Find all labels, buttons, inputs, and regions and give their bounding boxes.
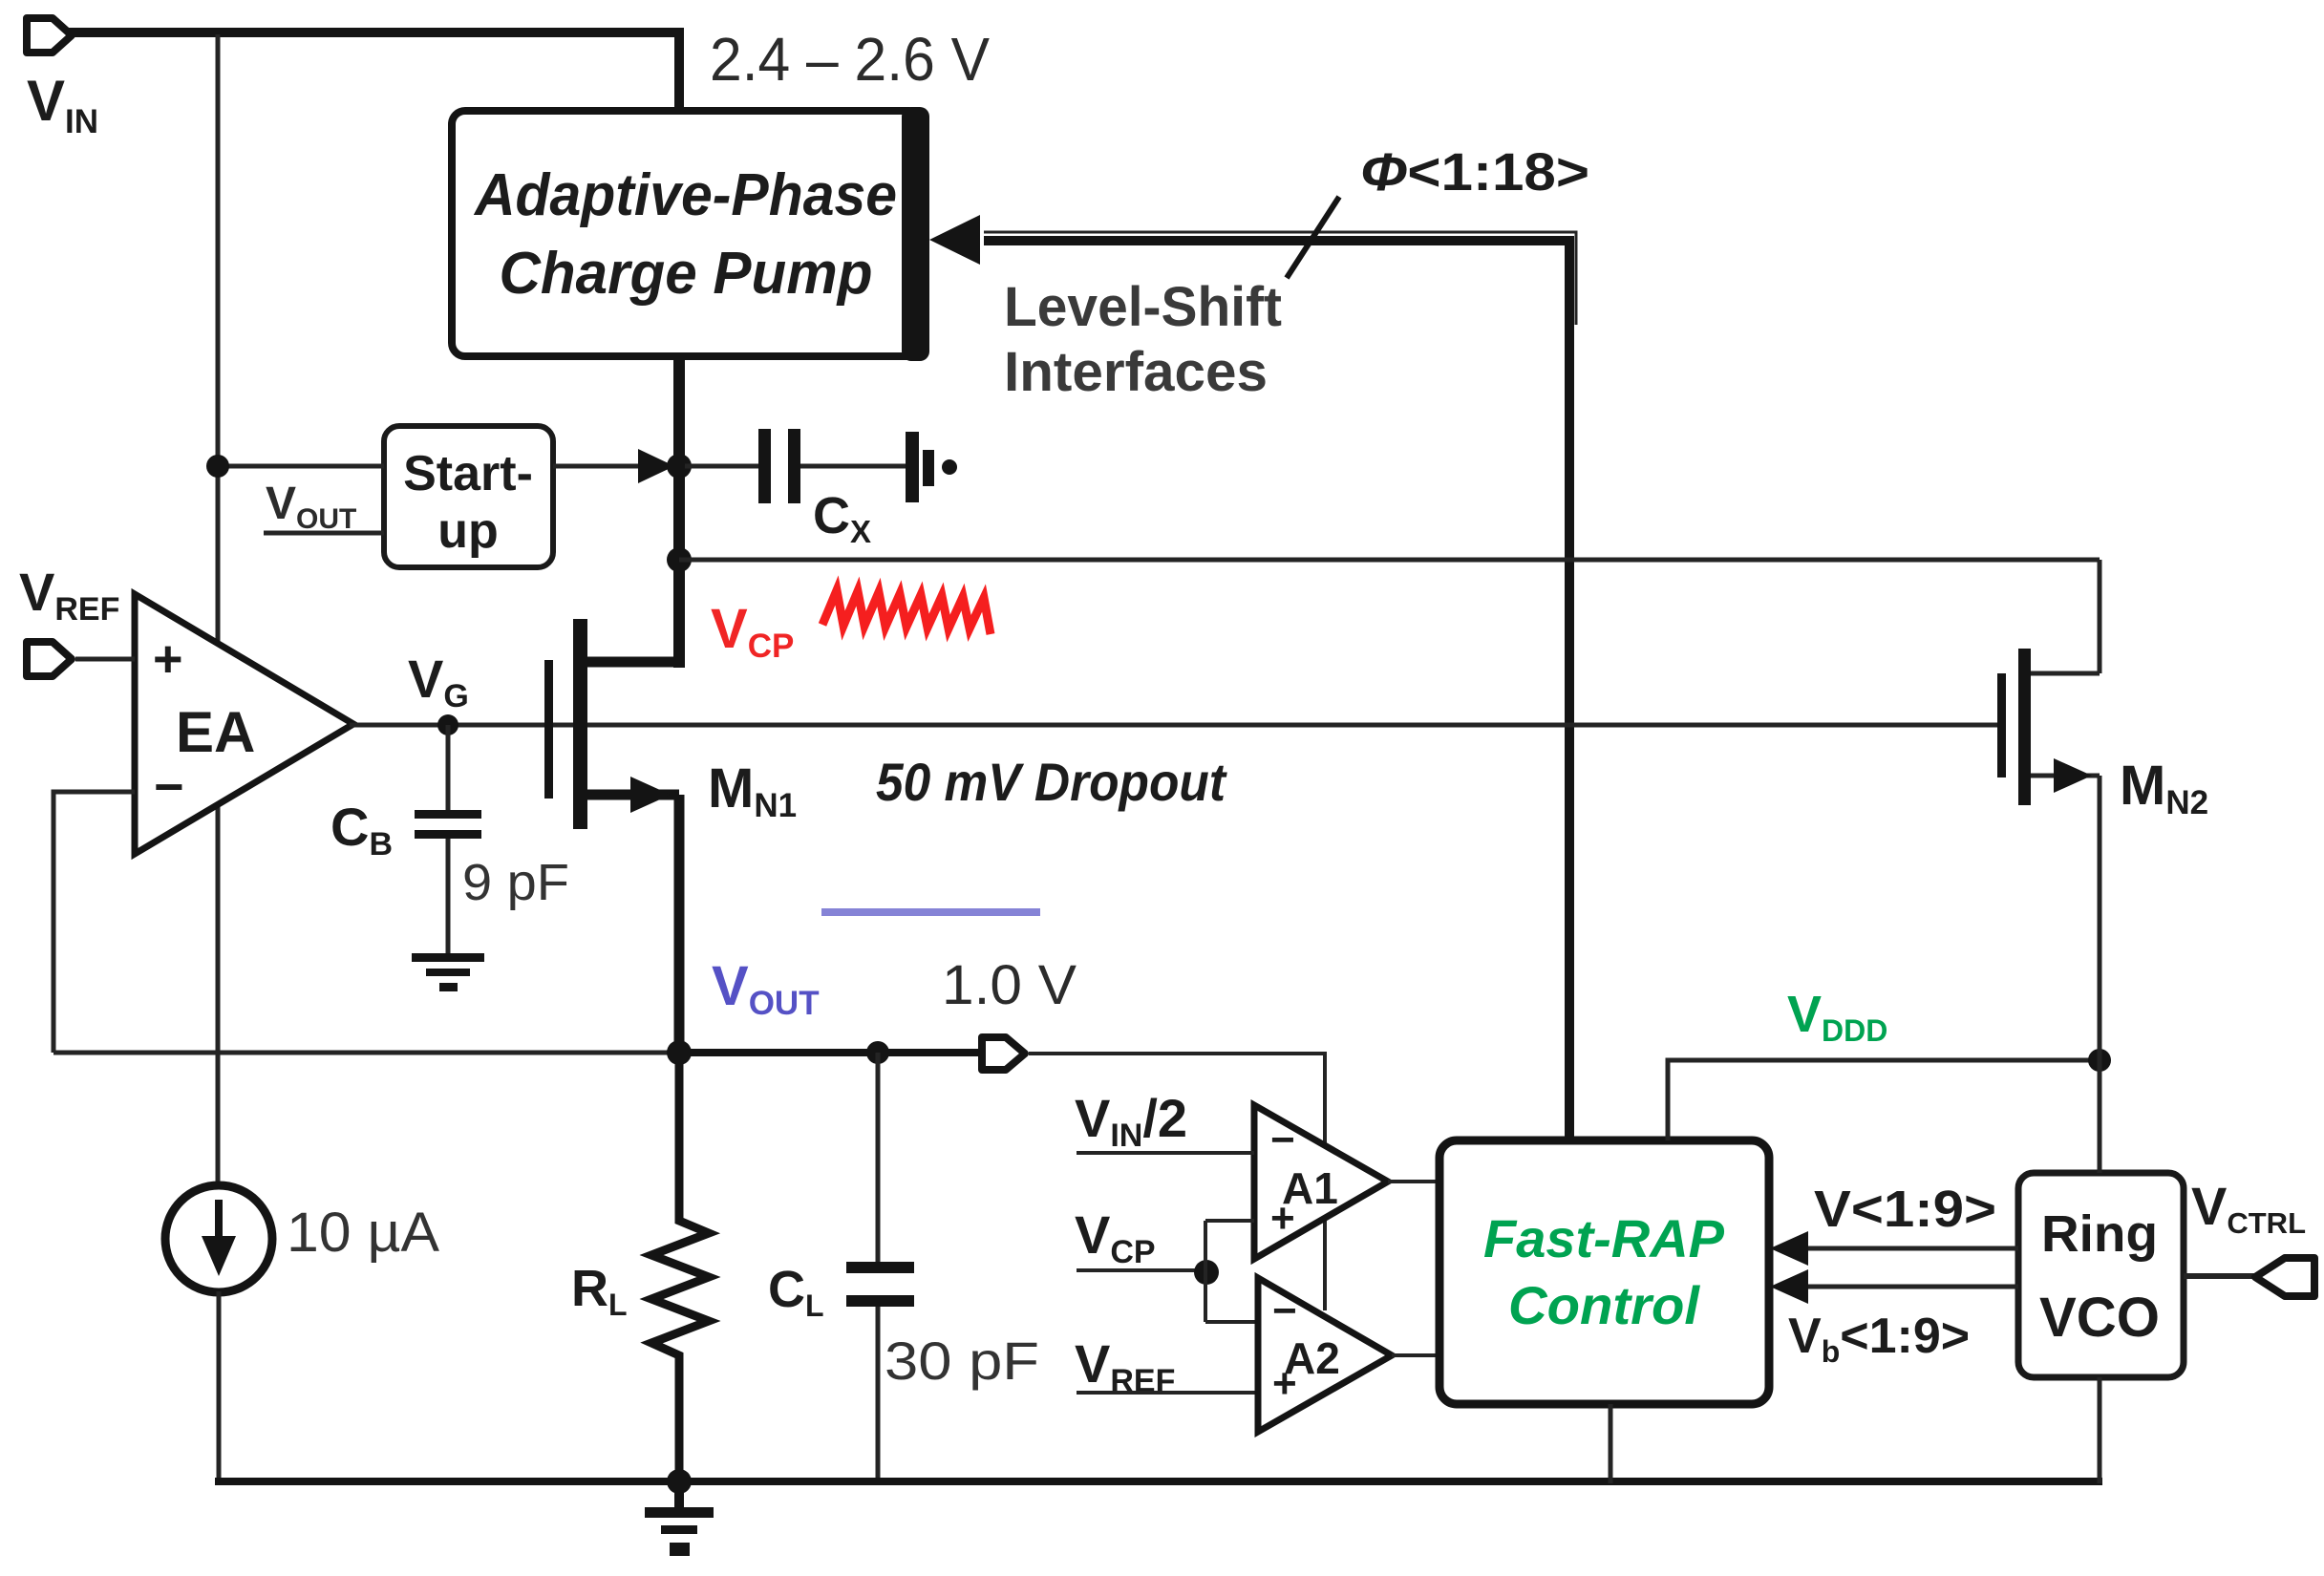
capacitor C_B (446, 725, 451, 811)
node C_L branch (866, 1041, 889, 1064)
wire V_b<1:9> with arrowhead (1796, 1285, 2018, 1289)
node V_CP row (667, 547, 692, 572)
wire: V_OUT row thick (679, 1049, 980, 1056)
op-amp EA (135, 594, 353, 854)
port 1.0V output (982, 1037, 1025, 1070)
box Fast-RAP Control (1439, 1140, 1769, 1404)
wire V_REF to EA (75, 657, 135, 662)
svg-text:−: − (1272, 1288, 1297, 1334)
bus width slash (1287, 197, 1339, 278)
svg-text:Adaptive-Phase: Adaptive-Phase (473, 162, 897, 228)
wire V_CTRL (2184, 1273, 2256, 1279)
wire VCO top (2098, 1060, 2102, 1173)
wire: V_CP row to M_N2 drain (679, 558, 2100, 563)
wire: V_IN vertical rail (216, 34, 221, 1184)
bottom ground rail (215, 1478, 2102, 1485)
comparator A1 (1254, 1105, 1388, 1259)
node V_G (437, 714, 458, 735)
wire: V_G gate line EA to M_N2 (350, 723, 1997, 728)
svg-text:VCO: VCO (2039, 1287, 2160, 1349)
wire: V_IN top rail to charge pump (69, 32, 679, 115)
wire V_DDD (1668, 1060, 2100, 1140)
svg-text:A1: A1 (1282, 1163, 1338, 1213)
wire: V_OUT row thin left (53, 1051, 679, 1055)
svg-text:Fast-RAP: Fast-RAP (1483, 1208, 1725, 1268)
wire: start-up input from V_IN rail (218, 464, 384, 469)
wire Fast-RAP to ground rail (1609, 1404, 1613, 1483)
resistor R_L (651, 1054, 709, 1483)
svg-text:Control: Control (1508, 1275, 1700, 1335)
svg-text:V<1:9>: V<1:9> (1814, 1181, 1996, 1238)
svg-text:EA: EA (176, 700, 255, 764)
svg-text:Vb<1:9>: Vb<1:9> (1788, 1309, 1970, 1369)
capacitor C_L (876, 1053, 881, 1263)
capacitor C_X (685, 464, 758, 469)
wire: port to comparator A1 (1029, 1054, 1325, 1310)
wire: charge pump output vertical (673, 356, 685, 668)
svg-text:Charge Pump: Charge Pump (500, 241, 873, 307)
box: Adaptive-Phase Charge Pump (452, 111, 923, 356)
port V_REF (27, 642, 72, 676)
wire: start-up output with arrowhead (553, 464, 669, 469)
box Ring VCO (2018, 1173, 2184, 1377)
port V_IN (27, 18, 72, 53)
comparator A2 (1258, 1278, 1392, 1432)
svg-text:30 pF: 30 pF (885, 1331, 1039, 1391)
blue marker line (821, 908, 1040, 916)
svg-text:Start-: Start- (403, 446, 533, 501)
svg-text:−: − (154, 758, 184, 816)
transistor M_N1 (544, 660, 553, 799)
bus wire PHI<1:18> into charge pump (984, 232, 1576, 325)
svg-text:1.0 V: 1.0 V (942, 954, 1077, 1016)
svg-text:+: + (153, 630, 183, 688)
transistor M_N2 (2098, 560, 2102, 673)
svg-text:Φ<1:18>: Φ<1:18> (1360, 141, 1589, 202)
ground below C_B (412, 953, 484, 962)
wire V<1:9> with arrowhead (1796, 1246, 2018, 1251)
box Start-up (384, 426, 553, 567)
port V_CTRL (2255, 1258, 2314, 1296)
svg-text:50 mV Dropout: 50 mV Dropout (876, 752, 1227, 812)
red ripple waveform (822, 590, 991, 634)
wire A1 output (1388, 1180, 1442, 1183)
svg-text:up: up (437, 503, 499, 559)
node V_DDD (2088, 1049, 2111, 1072)
svg-text:Level-Shift: Level-Shift (1004, 276, 1282, 338)
current source 10uA (165, 1185, 272, 1292)
node C_X row (667, 454, 692, 479)
wire VCO bottom (2098, 1377, 2102, 1483)
node on V_IN rail (206, 455, 229, 478)
svg-text:9 pF: 9 pF (462, 854, 569, 911)
svg-text:Interfaces: Interfaces (1004, 341, 1268, 403)
node rail-ground junction (667, 1469, 692, 1494)
ground symbol main (674, 1481, 684, 1509)
svg-text:A2: A2 (1284, 1333, 1340, 1383)
svg-text:Ring: Ring (2041, 1205, 2158, 1263)
wire: EA feedback from minus input to V_OUT row (53, 792, 135, 1053)
wire A2 output (1392, 1353, 1442, 1357)
node V_OUT (667, 1040, 692, 1065)
node V_CP branch junction (1194, 1260, 1219, 1285)
svg-text:−: − (1270, 1117, 1295, 1163)
C_X external terminal (906, 432, 919, 502)
svg-text:2.4 – 2.6 V: 2.4 – 2.6 V (710, 25, 990, 94)
svg-text:10 µA: 10 µA (287, 1202, 439, 1264)
